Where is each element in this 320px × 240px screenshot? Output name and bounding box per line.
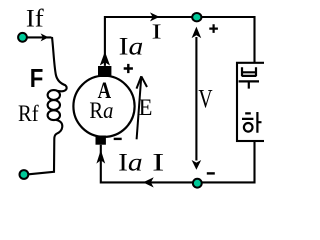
svg-text:I: I [152, 150, 164, 177]
svg-text:E: E [139, 95, 153, 121]
svg-text:Ia: Ia [119, 31, 144, 60]
svg-text:F: F [30, 63, 44, 93]
svg-text:If: If [26, 4, 44, 33]
svg-text:Ia: Ia [118, 150, 143, 177]
svg-text:I: I [152, 19, 162, 43]
svg-text:Rf: Rf [18, 101, 39, 126]
svg-text:Ra: Ra [89, 98, 113, 123]
svg-text:V: V [198, 84, 212, 113]
